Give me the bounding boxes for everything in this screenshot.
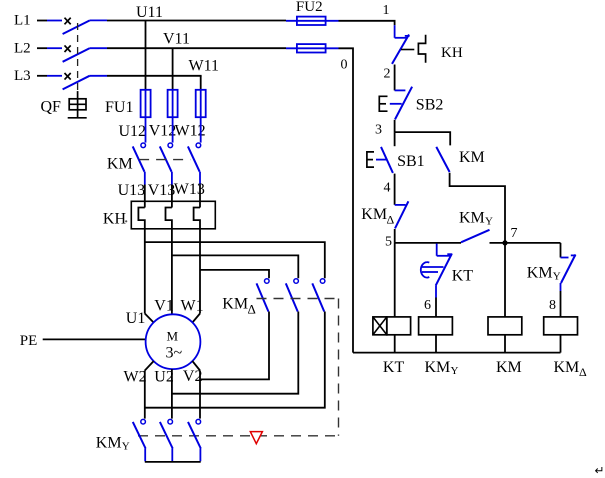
node U13 bbox=[118, 182, 146, 199]
contactor KM-delta label bbox=[222, 296, 256, 317]
contactor KM-delta contact 3 bbox=[312, 279, 325, 312]
svg-text:U11: U11 bbox=[136, 4, 163, 21]
fuse FU1 phase W bbox=[196, 90, 206, 117]
wire L2 to FU2 bbox=[107, 47, 286, 49]
svg-text:Δ: Δ bbox=[579, 365, 587, 379]
wire V11 vertical bbox=[172, 48, 174, 90]
svg-text:W1: W1 bbox=[181, 298, 204, 315]
svg-text:PE: PE bbox=[20, 333, 38, 349]
wire L2 lead bbox=[37, 47, 62, 49]
wire U13 into KH bbox=[144, 185, 146, 208]
svg-text:FU2: FU2 bbox=[296, 0, 323, 15]
thermal relay KH NC contact bbox=[392, 25, 410, 64]
thermal relay KH heater U bbox=[138, 208, 144, 229]
wire node7 to KM coil bbox=[504, 243, 506, 317]
breaker QF pole 3 x-mark bbox=[65, 73, 71, 80]
wire KT coil to bus bbox=[394, 335, 396, 353]
node V13 bbox=[148, 182, 176, 199]
mechanical link dashed vertical bbox=[338, 299, 340, 436]
timer KT contact label bbox=[452, 268, 474, 285]
svg-text:L3: L3 bbox=[14, 68, 31, 84]
svg-text:Y: Y bbox=[485, 215, 493, 227]
svg-text:KM: KM bbox=[554, 359, 580, 376]
wire KMY NC to KM-delta coil bbox=[560, 283, 562, 317]
wire star point bridge bbox=[145, 461, 201, 463]
motor M terminals labels W2 U2 V2 bbox=[124, 368, 203, 385]
contactor KM-Y NO contact horizontal bbox=[461, 230, 490, 243]
timer KT delay symbol bbox=[421, 262, 444, 278]
fuse FU1 label bbox=[105, 99, 133, 116]
contactor KM-Y NC label bbox=[527, 264, 561, 282]
timer KT delay contact bbox=[436, 244, 453, 286]
pushbutton SB1 NO bbox=[376, 132, 395, 173]
node 3 bbox=[375, 123, 382, 138]
svg-text:V11: V11 bbox=[163, 31, 190, 48]
breaker QF trip unit symbol bbox=[68, 91, 87, 118]
wire KM aux branch bbox=[395, 132, 451, 145]
breaker QF pole 1 blade bbox=[63, 20, 107, 34]
svg-text:KM: KM bbox=[425, 359, 451, 376]
fuse FU2 upper bbox=[286, 17, 339, 25]
svg-text:U12: U12 bbox=[119, 123, 147, 140]
contactor KM-Y NC interlock contact bbox=[561, 255, 577, 284]
wire node1-2 bbox=[394, 65, 396, 91]
svg-text:4: 4 bbox=[384, 180, 391, 195]
contactor KM main contact V bbox=[160, 117, 173, 184]
contactor KM-delta NC interlock contact bbox=[395, 201, 409, 228]
node 7 bbox=[502, 226, 517, 245]
svg-text:U1: U1 bbox=[126, 310, 146, 327]
contactor KM-delta contact 2 bbox=[286, 279, 299, 312]
wire node2-3 bbox=[394, 120, 396, 132]
node U12 bbox=[119, 123, 147, 140]
mechanical link red triangle bbox=[250, 432, 262, 444]
node L1 bbox=[14, 13, 31, 29]
node 2 bbox=[384, 67, 391, 82]
thermal relay KH box bbox=[131, 201, 215, 229]
contactor KM-delta linkage dashed bbox=[257, 298, 339, 300]
wire KT contact to KMY coil bbox=[435, 286, 437, 317]
wire V13 to motor V1 bbox=[171, 229, 173, 315]
wire branch8 corner bbox=[560, 243, 562, 258]
wire U13 to motor U1 bbox=[145, 229, 154, 323]
fuse FU1 phase V bbox=[168, 90, 178, 117]
node V12 bbox=[149, 122, 177, 139]
contactor KM-Y label bbox=[96, 434, 130, 452]
svg-text:KM: KM bbox=[459, 209, 485, 226]
mechanical link dashed horizontal bbox=[138, 435, 339, 437]
svg-text:KT: KT bbox=[452, 268, 474, 285]
wire V2 to KM-delta contact 1 bottom bbox=[200, 312, 269, 380]
wire node5 horizontal bbox=[395, 242, 461, 244]
wire KM-delta coil to bus bbox=[560, 335, 562, 353]
fuse FU2 label bbox=[296, 0, 323, 15]
svg-text:KM: KM bbox=[459, 149, 485, 166]
svg-text:L2: L2 bbox=[14, 40, 31, 56]
contactor KM label bbox=[107, 155, 133, 172]
thermal relay KH heater V bbox=[166, 208, 172, 229]
node 0 bbox=[341, 58, 348, 73]
coil KM bbox=[488, 317, 522, 335]
wire V-phase branch to KM-delta contact 2 bbox=[172, 255, 298, 278]
contactor KM aux NO contact bbox=[436, 147, 449, 172]
svg-text:KM: KM bbox=[496, 359, 522, 376]
timer KT coil bbox=[373, 317, 411, 335]
node 4 bbox=[384, 180, 391, 195]
node W11 bbox=[189, 58, 220, 75]
wire W11 vertical bbox=[200, 76, 202, 90]
breaker QF pole 2 blade bbox=[63, 48, 107, 62]
node 1 bbox=[383, 3, 390, 18]
coil label KM bbox=[496, 359, 522, 376]
fuse FU2 lower bbox=[286, 44, 339, 52]
svg-text:Y: Y bbox=[553, 270, 561, 282]
svg-text:5: 5 bbox=[385, 235, 392, 250]
thermal relay KH trip symbol bbox=[401, 35, 426, 63]
wire motor U2 down bbox=[171, 369, 173, 419]
node W12 bbox=[175, 123, 206, 140]
svg-text:KT: KT bbox=[383, 359, 405, 376]
node U11 bbox=[136, 4, 163, 21]
wire W2 to KM-delta contact 3 bottom bbox=[145, 312, 325, 408]
coil label KM-delta bbox=[554, 359, 588, 379]
svg-text:Y: Y bbox=[122, 440, 130, 452]
coil label KT bbox=[383, 359, 405, 376]
breaker QF pole 1 x-mark bbox=[65, 18, 71, 25]
thermal relay KH label bbox=[103, 211, 127, 228]
svg-text:L1: L1 bbox=[14, 13, 31, 29]
svg-text:1: 1 bbox=[383, 3, 390, 18]
wire U11 vertical bbox=[145, 21, 147, 90]
wire W-phase branch to KM-delta contact 1 bbox=[200, 270, 269, 278]
motor M circle bbox=[146, 314, 201, 369]
wire U2 to KM-delta contact 2 bottom bbox=[172, 312, 298, 394]
coil KM-Y bbox=[419, 317, 453, 335]
svg-text:↵: ↵ bbox=[595, 464, 605, 478]
wire node5 rail to KT coil bbox=[394, 243, 396, 317]
fuse FU1 phase U bbox=[141, 90, 151, 117]
node V11 bbox=[163, 31, 190, 48]
svg-text:6: 6 bbox=[424, 298, 431, 313]
wire L1 lead bbox=[37, 20, 62, 22]
wire L3 lead bbox=[37, 75, 62, 77]
wire W13 to motor W1 bbox=[192, 229, 200, 323]
contactor KM-Y contact 2 bbox=[160, 419, 173, 461]
thermal relay KH heater W bbox=[194, 208, 200, 229]
wire motor V2 down bbox=[192, 361, 200, 419]
svg-text:SB2: SB2 bbox=[416, 97, 444, 114]
svg-text:W11: W11 bbox=[189, 58, 220, 75]
wire U-phase branch to KM-delta contact 3 bbox=[145, 242, 325, 278]
contactor KM aux label bbox=[459, 149, 485, 166]
node 8 bbox=[549, 298, 556, 313]
contactor KM main contact W bbox=[188, 117, 201, 184]
svg-text:3: 3 bbox=[375, 123, 382, 138]
return mark bbox=[595, 464, 605, 478]
wire W13 into KH bbox=[199, 185, 201, 208]
svg-text:V1: V1 bbox=[154, 298, 174, 315]
breaker QF linkage dashed bbox=[77, 23, 79, 91]
svg-text:Y: Y bbox=[451, 365, 459, 377]
wire L1 to FU2 bbox=[107, 20, 286, 22]
motor M terminals labels U1 V1 W1 bbox=[126, 298, 204, 327]
svg-text:KH: KH bbox=[441, 45, 463, 61]
wire L3 to W11 junction bbox=[107, 75, 202, 77]
pushbutton SB2 cap bbox=[379, 96, 387, 111]
svg-text:U2: U2 bbox=[154, 368, 174, 385]
svg-text:7: 7 bbox=[511, 226, 518, 241]
svg-text:SB1: SB1 bbox=[397, 153, 425, 170]
pushbutton SB1 cap bbox=[367, 152, 374, 167]
wire to node7 bbox=[490, 242, 561, 244]
svg-text:KM: KM bbox=[361, 206, 387, 223]
svg-text:W2: W2 bbox=[124, 368, 147, 385]
breaker QF pole 2 x-mark bbox=[65, 45, 71, 52]
svg-text:8: 8 bbox=[549, 298, 556, 313]
node PE bbox=[20, 333, 38, 349]
contactor KM-Y contact 1 bbox=[133, 419, 146, 461]
contactor KM-delta NC label bbox=[361, 206, 394, 226]
node W13 bbox=[174, 181, 205, 198]
wire node4-5 bbox=[394, 229, 396, 243]
pushbutton SB1 label bbox=[397, 153, 425, 170]
svg-text:KM: KM bbox=[527, 264, 553, 281]
svg-text:QF: QF bbox=[41, 99, 62, 116]
wire line0 top corner bbox=[339, 48, 354, 352]
wire KMY coil to bus bbox=[435, 335, 437, 353]
contactor KM-Y contact 3 bbox=[188, 419, 201, 461]
svg-text:Δ: Δ bbox=[387, 212, 395, 226]
svg-text:3~: 3~ bbox=[166, 344, 183, 361]
contactor KM linkage dashed bbox=[139, 159, 190, 161]
svg-text:KM: KM bbox=[96, 434, 122, 451]
contactor KM main contact U bbox=[133, 117, 146, 184]
wire node3-4 bbox=[394, 174, 396, 205]
node L2 bbox=[14, 40, 31, 56]
wire line1 top bbox=[339, 21, 395, 25]
wire PE to motor bbox=[43, 338, 146, 340]
wire motor W2 down bbox=[145, 361, 154, 419]
thermal relay KH contact label bbox=[441, 45, 463, 61]
svg-text:KM: KM bbox=[222, 296, 248, 313]
svg-text:U13: U13 bbox=[118, 182, 146, 199]
coil label KM-Y bbox=[425, 359, 459, 377]
node 5 bbox=[385, 235, 392, 250]
svg-text:0: 0 bbox=[341, 58, 348, 73]
svg-text:KM: KM bbox=[107, 155, 133, 172]
wire V13 into KH bbox=[171, 185, 173, 208]
svg-text:KH: KH bbox=[103, 211, 127, 228]
svg-text:M: M bbox=[167, 329, 179, 344]
breaker QF label bbox=[41, 99, 62, 116]
breaker QF pole 3 blade bbox=[63, 76, 107, 90]
contactor KM-delta contact 1 bbox=[257, 279, 270, 312]
wire KM coil to bus bbox=[504, 335, 506, 353]
pushbutton SB2 NC bbox=[390, 87, 412, 120]
svg-text:Δ: Δ bbox=[248, 302, 256, 317]
pushbutton SB2 label bbox=[416, 97, 444, 114]
wire KM aux to node7 bbox=[450, 173, 505, 243]
coil KM-delta bbox=[544, 317, 578, 335]
svg-text:2: 2 bbox=[384, 67, 391, 82]
contactor KM-Y NO label bbox=[459, 209, 493, 227]
wire bottom bus bbox=[353, 352, 561, 354]
svg-text:FU1: FU1 bbox=[105, 99, 133, 116]
node L3 bbox=[14, 68, 31, 84]
node 6 bbox=[424, 298, 431, 313]
